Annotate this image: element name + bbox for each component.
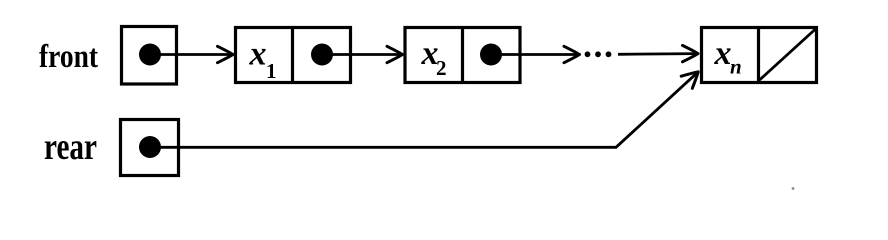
svg-text:n: n: [730, 55, 742, 79]
svg-text:rear: rear: [44, 126, 97, 168]
svg-text:1: 1: [266, 59, 277, 83]
svg-text:x: x: [249, 36, 267, 73]
front pointer box: [122, 27, 177, 85]
wire x1 to x2: [322, 53, 402, 56]
node x1 box: [236, 28, 351, 83]
rear pointer dot: [139, 136, 161, 158]
ellipsis dots: [585, 51, 591, 57]
svg-text:x: x: [714, 35, 732, 72]
rear pointer box: [121, 120, 179, 176]
node x1 pointer dot: [311, 44, 333, 66]
wire front to x1: [150, 53, 233, 56]
node x2 box: [405, 28, 520, 83]
svg-text:2: 2: [436, 56, 447, 80]
scan speck: [792, 187, 795, 190]
wire rear to xn: [150, 72, 698, 147]
svg-text:front: front: [39, 39, 98, 75]
front pointer dot: [139, 44, 161, 66]
wire ellipsis to xn: [618, 52, 698, 56]
node xn box: [702, 28, 817, 83]
node xn divider: [757, 26, 760, 83]
node x2 divider: [461, 26, 464, 84]
wire x2 to ellipsis: [491, 53, 579, 56]
node x2 pointer dot: [480, 44, 502, 66]
node x1 divider: [291, 26, 294, 84]
null slash in xn: [760, 29, 816, 80]
